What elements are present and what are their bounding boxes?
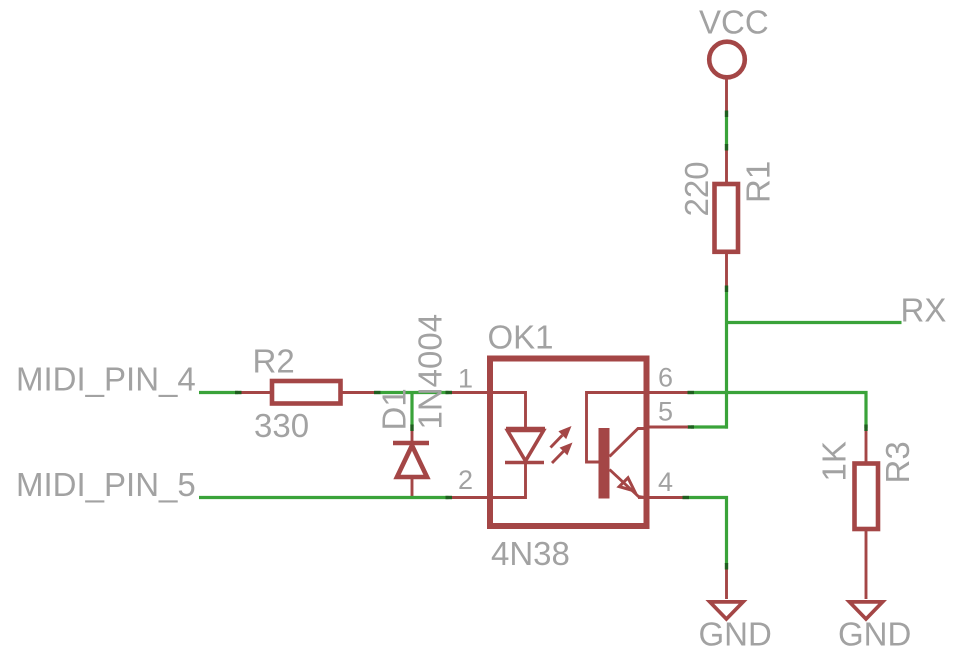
base wiring from pin 6 bbox=[587, 393, 646, 463]
OK1 pin 1 stub bbox=[452, 391, 490, 394]
svg-text:330: 330 bbox=[254, 407, 309, 444]
pin 6 stub bbox=[650, 391, 689, 394]
svg-text:4: 4 bbox=[658, 467, 673, 497]
wire R2 to OK1 pin1 (through D1 junction) bbox=[381, 391, 449, 394]
junction nub pin5 bbox=[688, 425, 695, 428]
svg-text:5: 5 bbox=[658, 397, 673, 427]
phototransistor base bar bbox=[599, 428, 610, 499]
junction nub net-pin1 bbox=[446, 391, 453, 394]
OK1 pin 2 stub bbox=[452, 496, 490, 499]
svg-text:4N38: 4N38 bbox=[491, 535, 570, 572]
wire pin5 row to vertical bbox=[691, 425, 728, 428]
D1 cathode pin bbox=[411, 431, 414, 443]
light arrow 2 bbox=[552, 443, 573, 464]
pin 4 stub bbox=[650, 496, 684, 499]
resistor R2 body bbox=[272, 381, 341, 404]
opto-coupler OK1 box bbox=[490, 359, 647, 527]
diode D1 cathode bar bbox=[393, 441, 429, 446]
svg-text:1N4004: 1N4004 bbox=[412, 314, 449, 430]
svg-text:R1: R1 bbox=[740, 161, 777, 203]
R3 bottom pin to GND bbox=[865, 529, 868, 599]
R2 right pin bbox=[341, 391, 378, 394]
wire pin6 to R3 column bbox=[694, 393, 866, 429]
svg-text:1: 1 bbox=[458, 364, 473, 394]
junction nub VCC-net bbox=[725, 111, 728, 118]
svg-text:GND: GND bbox=[838, 616, 911, 653]
wire VCC to R1 bbox=[725, 117, 728, 145]
svg-text:2: 2 bbox=[458, 465, 473, 495]
pin 5 stub bbox=[650, 426, 689, 429]
svg-text:MIDI_PIN_5: MIDI_PIN_5 bbox=[16, 466, 196, 503]
wire pin4 to GND bbox=[689, 498, 727, 565]
svg-text:1K: 1K bbox=[816, 441, 853, 481]
junction nub net-R2 bbox=[235, 391, 242, 394]
svg-text:D1: D1 bbox=[376, 388, 413, 430]
wire MIDI_PIN_5 to OK1 pin2 bbox=[199, 496, 449, 499]
LED anode bar bbox=[506, 427, 545, 431]
D1 anode pin bbox=[411, 477, 414, 498]
junction nub net-R1 bbox=[725, 144, 728, 151]
ground symbol right bbox=[849, 602, 882, 619]
junction nub net-GND bbox=[725, 563, 728, 570]
svg-text:220: 220 bbox=[678, 161, 715, 216]
svg-text:MIDI_PIN_4: MIDI_PIN_4 bbox=[16, 360, 196, 397]
R1 bottom pin bbox=[725, 252, 728, 288]
R1 top pin bbox=[725, 151, 728, 185]
svg-text:6: 6 bbox=[658, 363, 673, 393]
LED internal wiring to pin2 bbox=[491, 463, 526, 498]
wire MIDI_PIN_4 to R2 bbox=[199, 391, 238, 394]
svg-text:GND: GND bbox=[699, 616, 772, 653]
svg-text:OK1: OK1 bbox=[488, 319, 554, 356]
junction nub R1-net bbox=[725, 286, 728, 293]
wire RX branch bbox=[727, 321, 902, 324]
svg-text:R2: R2 bbox=[253, 343, 295, 380]
VCC pin wire bbox=[725, 77, 728, 113]
junction nub pin6 bbox=[688, 391, 695, 394]
svg-text:RX: RX bbox=[901, 292, 947, 329]
GND pin wire left bbox=[725, 570, 728, 600]
resistor R1 body bbox=[715, 184, 739, 252]
resistor R3 body bbox=[855, 464, 879, 530]
R3 top pin bbox=[865, 431, 868, 464]
pin 4 wire inside box bbox=[638, 496, 649, 499]
svg-text:VCC: VCC bbox=[699, 4, 769, 41]
supply symbol VCC (circle) bbox=[709, 42, 745, 78]
emitter arrow bbox=[619, 478, 634, 491]
ground symbol left bbox=[710, 602, 743, 619]
light arrow 1 bbox=[551, 426, 572, 448]
junction nub net-pin2 bbox=[446, 496, 453, 499]
emitter wiring to pin 4 bbox=[610, 470, 646, 498]
svg-text:R3: R3 bbox=[879, 441, 916, 483]
LED internal wiring from pin1 bbox=[491, 393, 526, 430]
LED cathode bar bbox=[505, 461, 544, 465]
junction nub net-D1 bbox=[410, 425, 413, 432]
diode D1 triangle bbox=[397, 446, 427, 478]
junction nub net-R3 bbox=[864, 425, 867, 432]
collector wiring to pin 5 bbox=[610, 429, 646, 457]
R2 left pin bbox=[242, 391, 273, 394]
junction nub R2-net bbox=[374, 391, 381, 394]
junction nub pin4 bbox=[683, 496, 690, 499]
wire D1 branch down bbox=[410, 393, 413, 426]
LED triangle bbox=[508, 431, 544, 462]
wire R1 down to pin5 row bbox=[725, 292, 728, 429]
